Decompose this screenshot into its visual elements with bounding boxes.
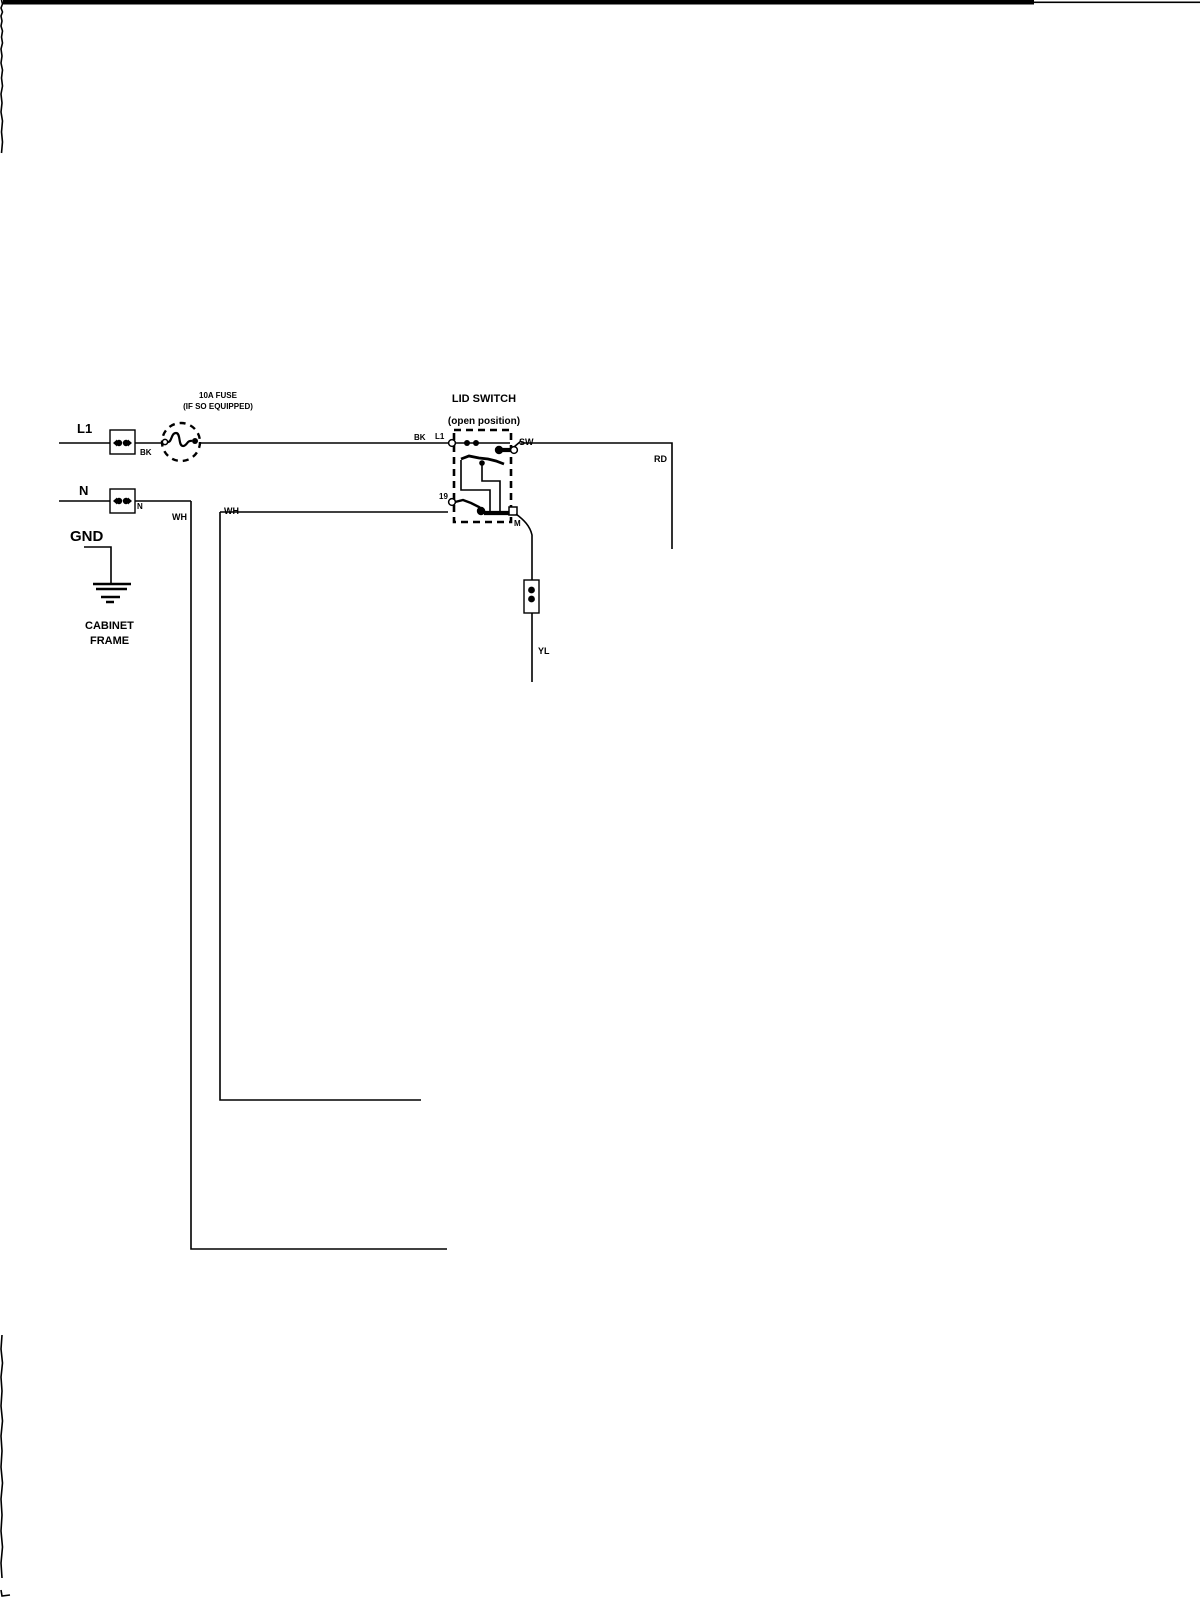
- svg-text:BK: BK: [414, 433, 426, 442]
- svg-text:BK: BK: [140, 448, 152, 457]
- svg-text:FRAME: FRAME: [90, 635, 129, 647]
- wire SW to RD corner: [521, 443, 672, 549]
- lid switch blade row3: [449, 499, 456, 506]
- svg-text:N: N: [137, 502, 143, 511]
- svg-text:RD: RD: [654, 454, 667, 464]
- pin M terminal: [484, 511, 509, 515]
- pin L1 terminal: [449, 440, 456, 447]
- wire internal jog A: [482, 464, 500, 512]
- pin SW terminal: [511, 447, 518, 454]
- svg-text:CABINET: CABINET: [85, 620, 134, 632]
- wire WH to lid switch: [220, 512, 448, 1100]
- svg-text:SW: SW: [519, 437, 534, 447]
- svg-text:WH: WH: [224, 506, 239, 516]
- svg-text:(open position): (open position): [448, 416, 520, 427]
- svg-text:19: 19: [439, 492, 448, 501]
- svg-text:L1: L1: [77, 421, 92, 436]
- svg-text:10A FUSE: 10A FUSE: [199, 391, 238, 400]
- connector N: [110, 489, 135, 513]
- svg-text:LID SWITCH: LID SWITCH: [452, 393, 516, 405]
- wire N: [59, 501, 447, 1249]
- svg-text:(IF SO EQUIPPED): (IF SO EQUIPPED): [183, 402, 253, 411]
- svg-text:WH: WH: [172, 512, 187, 522]
- connector L1: [110, 430, 135, 454]
- svg-text:GND: GND: [70, 528, 104, 545]
- wire M to YL: [516, 514, 532, 682]
- wire internal jog B: [461, 460, 490, 512]
- svg-text:L1: L1: [435, 432, 445, 441]
- svg-text:N: N: [79, 483, 88, 498]
- svg-text:YL: YL: [538, 646, 550, 656]
- svg-text:M: M: [514, 519, 521, 528]
- lid switch contacts row1: [456, 442, 510, 444]
- lid switch blade row2: [461, 456, 504, 464]
- wire L1: [59, 442, 450, 444]
- connector YL: [524, 580, 539, 613]
